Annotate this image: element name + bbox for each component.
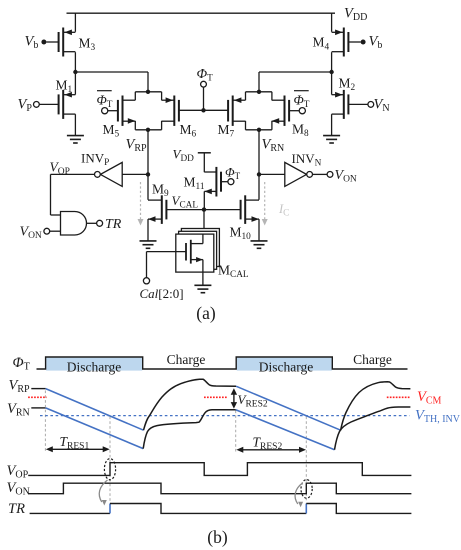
svg-text:TR: TR [8,501,25,517]
svg-text:Discharge: Discharge [259,360,313,375]
svg-text:Cal[2:0]: Cal[2:0] [140,286,184,301]
svg-text:Charge: Charge [167,352,206,367]
svg-text:(a): (a) [196,303,216,323]
svg-text:Charge: Charge [353,352,392,367]
svg-text:TR: TR [105,217,122,232]
svg-text:(b): (b) [207,527,228,547]
svg-text:Discharge: Discharge [67,360,121,375]
